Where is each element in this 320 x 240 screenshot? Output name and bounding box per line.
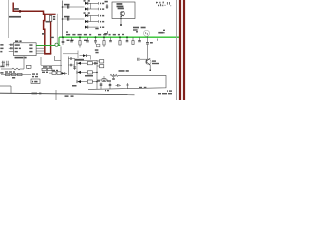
capacitor C51 <box>68 58 70 60</box>
diode D14 row3 <box>76 80 78 83</box>
label: smudges above connector bus <box>95 49 99 51</box>
label D2 <box>100 8 101 10</box>
label D3 <box>84 12 86 14</box>
pin number 18 <box>136 31 138 32</box>
label: PIN note right of circle <box>158 32 163 34</box>
wire: link D3-D4 <box>90 16 92 22</box>
wire: IC left pin 1 <box>9 44 14 46</box>
label row below green line <box>67 40 70 41</box>
capacitor C54 bars on x74.7 <box>73 66 76 68</box>
wire: red yoke line 1 <box>179 0 181 100</box>
wire: vertical x74.7 <box>74 58 76 70</box>
wire: link D1-D2 <box>90 3 92 9</box>
label: right small note <box>163 30 165 31</box>
label text block right of line <box>32 73 35 74</box>
label: bottom mid ticks <box>105 90 106 91</box>
label tuner <box>117 3 123 5</box>
wire: vertical x68.4 <box>67 57 69 76</box>
label D5 <box>100 27 101 29</box>
label below row2 <box>85 75 93 77</box>
wire: AGC line left <box>1 68 12 70</box>
wire: vertical x61 <box>60 47 62 72</box>
diode D13 row2 <box>76 71 78 74</box>
capacitor C37 below green <box>139 37 141 40</box>
capacitor C12 on branch 2 <box>66 17 68 20</box>
wire: stub to box 2 <box>97 65 100 67</box>
capacitor C41 <box>146 42 149 44</box>
wire: CRT branch down <box>147 36 149 42</box>
label: TO note right <box>167 90 168 91</box>
label row above green line <box>66 34 70 36</box>
transistor Q203 <box>146 59 151 64</box>
capacitor C33 below green <box>110 37 112 40</box>
wire: stub to box 1 <box>97 60 100 62</box>
label Q201 <box>118 8 124 10</box>
resistor R31 below green <box>79 37 81 40</box>
wire from D5 <box>88 26 99 28</box>
IC box IF101 <box>14 43 37 56</box>
component box small top <box>97 44 100 47</box>
resistor R34 below green <box>132 37 134 40</box>
node: open terminal <box>120 24 122 26</box>
resistor R44 box series <box>57 72 61 75</box>
wire: Q203 emitter down <box>149 65 151 70</box>
wire: green video out from IC <box>36 45 60 47</box>
label: MPS source text <box>9 16 21 18</box>
resistor R41 box <box>42 68 46 70</box>
label bottom-left of cluster <box>72 85 77 87</box>
label: bottom left text <box>32 93 38 95</box>
capacitor C42 <box>138 58 140 61</box>
wire from D4 <box>88 21 99 23</box>
component box B2 <box>100 65 104 68</box>
wire: IC left pin 2 <box>9 47 14 49</box>
node: dot at emitter <box>121 16 122 17</box>
wire: link diode bars <box>76 63 78 81</box>
label cluster <box>52 70 55 71</box>
IC pin text left column <box>15 44 20 46</box>
capacitor C21 small vertical <box>106 4 108 9</box>
capacitor C31 below green <box>62 37 64 41</box>
wire: bottom left horizontal y86 <box>0 85 11 87</box>
wire: tuner output down <box>120 16 122 24</box>
label: top-left voltage text <box>14 8 19 10</box>
resistor R51 small <box>102 79 106 82</box>
capacitor C52 <box>68 64 70 66</box>
wire: red bottom U link <box>44 53 51 55</box>
node: dot at tuner box bottom <box>120 18 121 19</box>
label: top-right specks <box>157 2 158 3</box>
wire: branch to diode row 2 <box>63 18 85 20</box>
wire: IC left pin 3 <box>9 50 14 52</box>
capacitor C35 below green <box>71 37 73 40</box>
wire: red yoke line 2 <box>183 0 185 100</box>
label above bottom line <box>5 71 8 72</box>
label: dashes under bottom edge <box>139 87 142 88</box>
wire: B+ red supply top-left <box>13 3 45 15</box>
node: CRT circle connector <box>144 30 150 36</box>
diode D3 <box>85 14 88 17</box>
wire: stub left at Q203 <box>140 58 148 60</box>
label: tick left-mid <box>95 28 98 29</box>
wire: gray vertical to connector <box>56 14 58 44</box>
wire: red from resistor bottom down <box>50 22 52 54</box>
wire: bottom ground bus <box>0 93 135 95</box>
wire: red vertical drop left <box>44 14 45 54</box>
wire: small horizontal over cluster <box>41 64 62 66</box>
wire: IC right pin stub 2 <box>36 47 44 49</box>
resistor R43 box series <box>52 72 56 75</box>
capacitor C32 below green <box>95 37 97 40</box>
diode D4 <box>85 20 88 23</box>
wire: branch to diode row 1 <box>63 6 85 8</box>
value label resistor <box>53 16 55 18</box>
wire: thin horizontal y53.8 <box>63 53 78 55</box>
wire: right gray vertical <box>176 0 178 100</box>
box: bottom right enclosure <box>88 75 166 89</box>
wire: green main video line <box>59 36 179 38</box>
resistor R21 zigzag <box>12 68 24 70</box>
wire: middle vertical bus <box>62 1 64 38</box>
label: left margin pin names <box>0 44 3 46</box>
label D1 <box>84 0 86 2</box>
resistor R101 vertical <box>49 16 51 22</box>
box: SIF label box <box>31 79 40 84</box>
wire: stub y80 right <box>97 79 108 81</box>
label caps row <box>97 80 100 81</box>
label Q04 below <box>12 77 15 79</box>
label: top right tick text <box>156 2 157 4</box>
wire: IC right pin stub 4 <box>36 52 44 54</box>
resistor R33 below green <box>119 37 121 40</box>
wire: red horizontal to resistor top <box>45 13 56 15</box>
IC pin text right column <box>29 44 32 46</box>
node: green junction dots <box>62 36 64 38</box>
diode D11 arrow <box>62 72 65 75</box>
label above circle <box>133 27 139 29</box>
tick marks near x167 <box>166 2 168 5</box>
diode D15 right pointing <box>80 55 84 57</box>
label branch1 <box>64 4 70 6</box>
node: junction dot on red wire <box>19 10 22 13</box>
label left margin upper <box>0 66 4 68</box>
label above diode row 1 <box>75 59 85 61</box>
diode D12 row1 <box>76 62 78 65</box>
node: open circle connector on green <box>55 43 58 46</box>
pin number 13 <box>104 33 107 35</box>
label above IC <box>15 40 18 42</box>
diode D1 <box>85 2 88 5</box>
wire from D2 <box>88 8 99 10</box>
wire: vertical x41 <box>40 57 42 65</box>
transistor Q201 inside tuner <box>120 12 124 16</box>
inductor L01 box <box>6 73 11 75</box>
tuner box U201 <box>112 2 135 19</box>
capacitor C11 on branch 1 <box>66 5 68 8</box>
ground terminal dot <box>149 69 151 71</box>
capacitor C34 below green <box>126 37 128 40</box>
label below IC <box>15 57 24 59</box>
wire: short vertical x104 <box>103 76 105 81</box>
wire: bottom mixed line <box>1 74 31 76</box>
wire: IC right pin stub 3 <box>36 50 44 52</box>
label mid MKC <box>119 70 125 72</box>
wire: bottom mid vertical <box>55 90 57 100</box>
capacitor C62 hanging <box>109 83 111 90</box>
label: smudge right of jog <box>46 21 51 23</box>
node: bus junction dots <box>62 6 64 8</box>
inductor marks far left <box>2 61 4 67</box>
wire: below-IC pin down <box>23 56 25 69</box>
wire: stub y60.7 <box>55 60 61 62</box>
label C41 <box>150 42 153 44</box>
diode D5 lower <box>85 26 88 29</box>
wire: bottom left vertical <box>10 86 12 94</box>
wire: vertical x78 <box>77 51 79 59</box>
label D4 <box>100 21 101 23</box>
label branch2 <box>64 16 70 18</box>
wire: horizontal link left <box>75 60 97 62</box>
capacitor on pin1 <box>10 44 12 46</box>
wire from D1 <box>88 2 99 4</box>
label Q203 <box>152 60 156 61</box>
capacitor C36 below green <box>87 37 89 40</box>
label: smudge left of green corner <box>50 37 53 38</box>
wire: enclosure stub vertical with cap <box>113 75 115 78</box>
capacitor C61 hanging <box>100 83 102 90</box>
wire: left vertical gray bus <box>8 0 10 38</box>
label: smudges under bus <box>65 95 69 97</box>
wire links series <box>49 72 52 74</box>
label under R41 <box>42 72 45 73</box>
small vertical component x127.5 <box>127 83 129 89</box>
label 4.7 top <box>105 1 108 3</box>
inductor L02 box <box>12 73 17 75</box>
diode D2 <box>85 8 88 11</box>
component box B1 <box>100 60 104 63</box>
capacitor on pin2 <box>10 47 12 49</box>
resistor R32 below green <box>103 37 105 40</box>
component box above AGC line <box>27 65 32 68</box>
label row above R41 <box>43 66 48 68</box>
wire: tick crossing green right <box>156 39 158 41</box>
resistor R22 box <box>18 73 23 75</box>
capacitor C63 hanging <box>117 84 119 87</box>
wire: vertical connector bus x97 <box>96 60 98 89</box>
resistor R42 box <box>48 68 52 70</box>
resistor inline on enclosure top edge <box>110 74 118 76</box>
wire from D3 <box>88 15 99 17</box>
label: tick left of red vertical <box>42 33 45 35</box>
wire: green vertical riser <box>58 37 60 45</box>
